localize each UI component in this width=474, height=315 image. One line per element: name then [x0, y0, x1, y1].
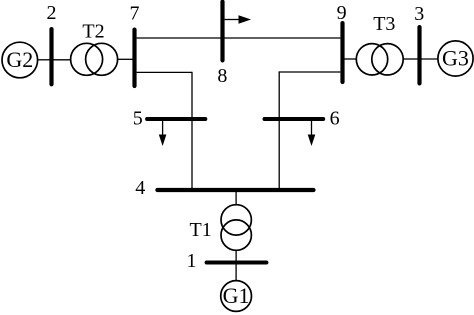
wire G2 to bus 2 [38, 59, 50, 61]
generator G1 [221, 281, 252, 312]
svg-text:5: 5 [133, 108, 143, 130]
wire bus 7 to node above bus 5 [137, 71, 192, 73]
wire T3 to bus 3 [403, 58, 417, 60]
transformer T3 [356, 13, 403, 75]
wire T2 to bus 7 [118, 58, 133, 60]
wire line 9-6-4 vertical [278, 71, 280, 189]
wire bus 9 to node above bus 6 [279, 71, 340, 73]
generator G2 [2, 42, 38, 78]
svg-text:4: 4 [135, 177, 145, 199]
svg-text:T3: T3 [373, 13, 395, 35]
svg-text:G1: G1 [223, 283, 250, 308]
wire line 7-8-9 [137, 37, 341, 39]
load arrow bus 6 [308, 121, 316, 146]
bus 7 [130, 3, 140, 86]
wire T1 to bus 1 [235, 250, 237, 261]
svg-text:G2: G2 [6, 47, 33, 72]
generator G3 [438, 41, 473, 76]
bus 1 [187, 250, 267, 272]
svg-text:T1: T1 [189, 219, 211, 241]
svg-text:T2: T2 [82, 21, 104, 43]
wire line 7-5-4 vertical [191, 72, 193, 189]
svg-text:1: 1 [187, 250, 197, 272]
wire bus 3 to G3 [422, 58, 438, 60]
svg-text:2: 2 [47, 2, 57, 24]
transformer T1 [189, 205, 251, 251]
wire bus 2 to T2 [54, 59, 71, 61]
wire bus 4 to T1 [235, 192, 237, 205]
bus 5 [133, 108, 206, 130]
bus 8 [217, 2, 227, 87]
transformer T2 [71, 21, 118, 76]
bus 2 [47, 2, 57, 84]
svg-text:G3: G3 [442, 46, 469, 71]
bus 6 [265, 108, 340, 130]
wire bus 1 to G1 [235, 265, 237, 281]
load arrow bus 5 [159, 121, 167, 146]
bus 4 [135, 177, 313, 199]
svg-text:8: 8 [217, 65, 227, 87]
svg-text:7: 7 [130, 3, 140, 25]
wire bus 9 to T3 [345, 58, 357, 60]
bus 3 [414, 3, 424, 83]
svg-text:6: 6 [330, 108, 340, 130]
power flow arrow at bus 8 [225, 15, 251, 23]
svg-text:9: 9 [337, 2, 347, 24]
svg-text:3: 3 [414, 3, 424, 25]
bus 9 [337, 2, 347, 82]
